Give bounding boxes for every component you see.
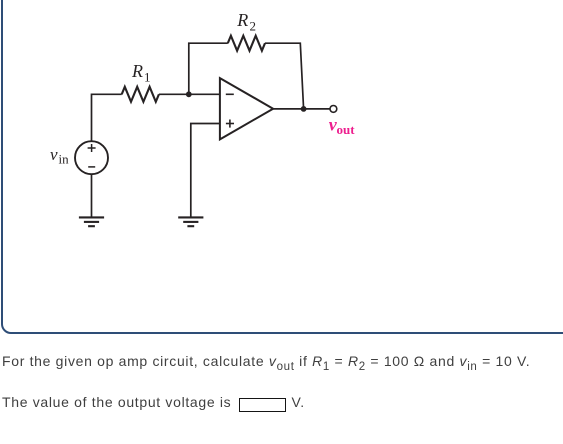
- svg-text:out: out: [337, 122, 356, 137]
- svg-text:v: v: [50, 145, 58, 164]
- svg-text:1: 1: [144, 70, 151, 85]
- svg-text:R: R: [236, 10, 248, 30]
- svg-text:R: R: [131, 61, 143, 81]
- svg-text:2: 2: [250, 19, 257, 34]
- svg-text:in: in: [59, 152, 70, 167]
